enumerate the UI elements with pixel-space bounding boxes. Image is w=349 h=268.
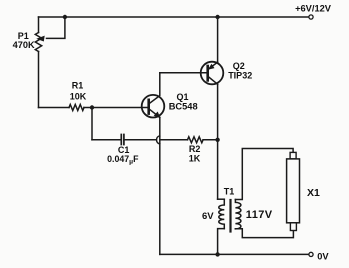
potentiometer P1 zigzag	[35, 33, 41, 52]
transistor Q2 circle	[201, 62, 224, 85]
wire bottom rail	[160, 253, 309, 255]
svg-text:1K: 1K	[189, 154, 201, 164]
wire junction down to C1 line	[91, 108, 93, 140]
svg-text:R1: R1	[72, 81, 84, 91]
svg-text:TIP32: TIP32	[228, 71, 252, 81]
node top-left junction	[63, 15, 67, 19]
capacitor C1 plates	[121, 135, 124, 145]
transistor Q2 emitter (up)	[208, 62, 217, 69]
wire Q1 collector to Q2 base	[160, 72, 208, 74]
lamp X1 top cap	[290, 152, 296, 159]
svg-text:0.047µF: 0.047µF	[107, 154, 139, 166]
svg-text:R2: R2	[189, 144, 201, 154]
svg-text:10K: 10K	[70, 92, 87, 102]
transistor Q1 emitter arrowhead	[154, 112, 161, 119]
node R2 / collector junction	[215, 138, 219, 142]
svg-text:T1: T1	[224, 186, 235, 196]
lamp X1 body	[287, 159, 300, 223]
wire C1 left lead	[92, 139, 121, 141]
transformer T1 primary winding	[219, 199, 225, 228]
transformer T1 primary top lead	[218, 198, 225, 200]
wire R1 to Q1 base	[84, 107, 149, 109]
svg-text:117V: 117V	[246, 209, 273, 221]
svg-text:0V: 0V	[317, 251, 329, 261]
svg-text:X1: X1	[307, 187, 320, 199]
wire Q1 emitter down to bottom rail	[159, 117, 161, 254]
transistor Q2 collector (down)	[208, 77, 217, 85]
terminal 0V	[309, 252, 313, 256]
node top junction at Q2 emitter	[215, 15, 219, 19]
resistor R1 zigzag	[69, 105, 84, 111]
wire left vertical P1 to R1 line	[38, 52, 40, 108]
wire R1 line left segment	[39, 107, 70, 109]
resistor R2 zigzag	[188, 137, 204, 143]
transformer T1 secondary top lead	[235, 149, 293, 200]
wire Q2 emitter to top rail	[217, 17, 219, 62]
transistor Q2 base bar	[206, 66, 209, 80]
node R1 / C1 junction	[90, 105, 94, 109]
potentiometer P1 wiper arrowhead	[36, 36, 44, 42]
svg-text:6V: 6V	[202, 211, 214, 222]
transformer T1 secondary bottom lead	[235, 229, 293, 238]
wire left drop from rail to P1	[38, 17, 40, 33]
transistor Q1 circle	[142, 95, 165, 118]
terminal +6V/12V	[309, 15, 313, 19]
wire crossover hop at Q1 emitter line	[157, 136, 160, 144]
wire Q2 collector down to transformer	[217, 84, 219, 199]
transistor Q1 base bar	[147, 100, 150, 114]
svg-text:470K: 470K	[13, 40, 35, 50]
svg-text:+6V/12V: +6V/12V	[295, 4, 332, 14]
wire top rail	[39, 16, 309, 18]
wire R2 to Q2 collector line	[203, 139, 218, 141]
transistor Q2 emitter arrowhead	[208, 64, 215, 70]
wire hop to R2	[160, 139, 187, 141]
transistor Q1 emitter	[150, 109, 160, 117]
node bottom junction	[215, 252, 219, 256]
wire C1 to hop	[124, 139, 156, 141]
svg-text:BC548: BC548	[169, 101, 198, 111]
transformer T1 primary bottom lead	[218, 229, 225, 255]
transformer T1 secondary winding	[235, 200, 241, 229]
transformer T1 core	[229, 200, 231, 232]
transistor Q1 collector	[150, 73, 160, 104]
lamp X1 bottom cap	[290, 223, 296, 231]
potentiometer P1 wiper wire	[47, 17, 65, 38]
